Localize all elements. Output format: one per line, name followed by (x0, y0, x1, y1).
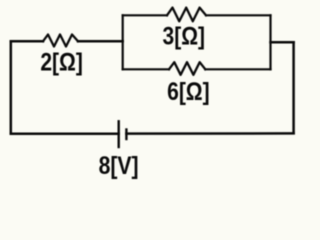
wire box bottom edge left (123, 68, 169, 70)
wire right vertical (292, 42, 295, 133)
wire bottom right segment (126, 132, 293, 135)
wire bottom left segment (11, 132, 119, 135)
svg-text:6[Ω]: 6[Ω] (167, 78, 210, 106)
svg-text:8[V]: 8[V] (99, 152, 139, 180)
node B: parallel box right edge (269, 15, 271, 69)
wire box bottom edge right (205, 68, 270, 70)
wire box top edge left (123, 14, 167, 16)
battery V1 short plate (125, 130, 127, 140)
wire left vertical (10, 41, 13, 133)
wire box top edge right (206, 14, 271, 16)
wire node B to right (271, 41, 294, 44)
resistor R2 3[Ω] (167, 8, 206, 22)
svg-text:3[Ω]: 3[Ω] (163, 23, 206, 51)
resistor R1 2[Ω] (43, 35, 78, 47)
battery V1 long plate (117, 121, 119, 147)
svg-text:2[Ω]: 2[Ω] (40, 49, 83, 77)
wire R1 to node A (78, 40, 123, 43)
wire top-left segment (11, 40, 43, 43)
node A: parallel box left edge (122, 15, 124, 69)
resistor R3 6[Ω] (169, 62, 205, 75)
